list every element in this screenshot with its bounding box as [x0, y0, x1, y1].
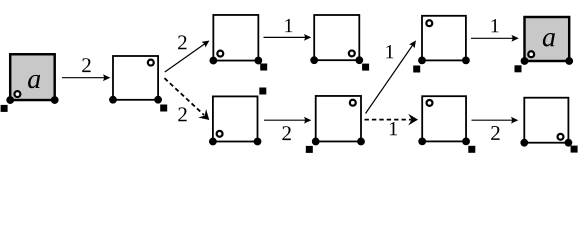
corner dot B1 bottom-left: [209, 138, 217, 146]
arrow B3 to B4 (solid): [472, 117, 519, 124]
filled-square marker outside B2 (bottom-left): [306, 146, 313, 153]
state box T2 (top row 2): [314, 15, 359, 60]
corner dot T2 bottom-left: [310, 56, 318, 64]
label 2 on arrow B3 to B4: [491, 126, 499, 140]
label 1 on arrow B2 to B3: [390, 122, 397, 135]
corner dot T4 bottom-right: [565, 57, 573, 65]
corner dot S bottom-left: [6, 96, 14, 104]
open-circle marker in box T2 (bottom-right): [349, 50, 355, 56]
corner dot T4 bottom-left: [521, 57, 529, 65]
corner dot B3 bottom-right: [462, 138, 470, 146]
arrow T1 to T2 (solid): [264, 34, 312, 41]
label 2 on arrow M to B1: [178, 107, 186, 121]
label 1 on arrow B2 to T3: [386, 45, 393, 58]
open-circle marker in box T4 (bottom-left): [528, 51, 534, 57]
open-circle marker in box B1 (bottom-left): [217, 131, 223, 137]
corner dot T2 bottom-right: [355, 56, 363, 64]
corner dot M bottom-right: [154, 96, 162, 104]
filled-square marker outside T2 (bottom-right): [362, 64, 369, 71]
arrow T3 to T4 (solid): [471, 35, 519, 42]
state box B3 (bottom row 3): [422, 96, 466, 141]
arrow B2 to B3 (dashed): [365, 114, 419, 126]
corner dot T1 bottom-right: [254, 57, 262, 65]
label a in box T4: [543, 33, 555, 46]
state box T1 (top row 1): [213, 15, 258, 61]
state box T4 (final state, gray): [525, 17, 570, 61]
open-circle marker in box T1 (bottom-left): [217, 51, 223, 57]
filled-square marker outside M (bottom-right): [160, 105, 167, 112]
open-circle marker in box M (top-right): [148, 60, 154, 66]
open-circle marker in box T3 (top-left): [426, 20, 432, 26]
open-circle marker in box B2 (top-right): [350, 100, 356, 106]
corner dot B4 bottom-left: [520, 139, 528, 147]
arrow M to B1 (dashed diagonal down): [165, 78, 214, 124]
filled-square marker outside T3 (bottom-left): [413, 66, 420, 73]
corner dot M bottom-left: [109, 96, 117, 104]
corner dot T3 bottom-right: [462, 57, 470, 65]
arrow M to T1 (solid diagonal up): [165, 38, 212, 72]
open-circle marker in box B3 (top-left): [427, 100, 433, 106]
corner dot B3 bottom-left: [418, 138, 426, 146]
state box S (start state, gray): [10, 54, 55, 100]
label 1 on arrow T1 to T2: [285, 19, 292, 32]
corner dot B4 bottom-right: [565, 139, 573, 147]
open-circle marker in box S (bottom-left): [14, 91, 20, 97]
corner dot T3 bottom-left: [418, 57, 426, 65]
state box B1 (bottom row 1): [213, 96, 258, 141]
state box M: [113, 56, 158, 100]
state box T3 (top row 3): [422, 16, 466, 61]
open-circle marker in box B4 (bottom-right): [558, 134, 564, 140]
filled-square marker outside B1 (top-right): [259, 88, 266, 95]
filled-square marker outside T4 (bottom-left): [515, 65, 522, 72]
arrow B2 to T3 (solid diagonal up): [366, 38, 419, 113]
filled-square marker outside B4 (bottom-right): [571, 146, 578, 153]
label 2 on arrow B1 to B2: [282, 126, 290, 140]
corner dot B2 bottom-right: [357, 138, 365, 146]
state box B4 (bottom row 4): [524, 98, 568, 143]
corner dot S bottom-right: [51, 96, 59, 104]
arrow B1 to B2 (solid): [264, 117, 311, 124]
state box B2 (bottom row 2): [316, 96, 361, 142]
label 2 on arrow M to T1: [178, 35, 186, 49]
filled-square marker outside B3 (bottom-right): [468, 146, 475, 153]
arrow S to M (solid): [62, 74, 110, 81]
label a in box S: [28, 75, 40, 88]
filled-square marker outside T1 (bottom-right): [260, 64, 267, 71]
filled-square marker outside S (bottom-left): [1, 105, 8, 112]
corner dot T1 bottom-left: [209, 57, 217, 65]
label 2 on arrow S to M: [82, 58, 90, 72]
label 1 on arrow T3 to T4: [492, 19, 499, 32]
corner dot B2 bottom-left: [312, 138, 320, 146]
corner dot B1 bottom-right: [254, 138, 262, 146]
